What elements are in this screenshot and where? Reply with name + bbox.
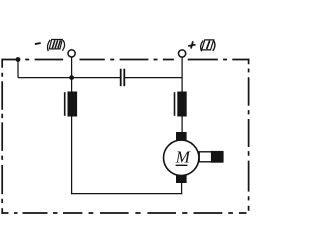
wire: capacitor right plate to right branch	[125, 77, 182, 79]
wire: right terminal down to choke L2	[181, 57, 183, 92]
motor M1 shaft outline	[199, 152, 223, 162]
motor M1 shaft black end	[211, 151, 223, 163]
housing boundary right dash-dot line	[248, 59, 250, 211]
choke L1 core line	[64, 92, 66, 116]
capacitor C1 right plate	[123, 69, 125, 87]
wire: choke L2 down to motor top brush	[181, 116, 183, 133]
svg-text:M: M	[175, 147, 191, 166]
terminal minus	[68, 50, 75, 57]
motor M1 underline of M	[176, 164, 188, 166]
wire: ground to capacitor left plate	[18, 77, 120, 79]
label left parenthesis (	[47, 40, 50, 51]
housing boundary top dash-dot line	[2, 59, 250, 61]
housing boundary left dash-dot line	[1, 59, 3, 214]
label plus sign	[188, 41, 195, 48]
label hatched box III	[49, 40, 62, 49]
capacitor C1 left plate	[120, 69, 122, 87]
motor M1 bottom brush	[176, 175, 187, 183]
choke L1 body	[68, 92, 78, 117]
wire: left terminal down to choke L1	[71, 57, 73, 92]
junction node at left branch	[69, 75, 74, 80]
wire: ground drop from boundary	[17, 60, 19, 78]
label hatched box I	[202, 40, 214, 50]
wire: bottom horizontal run	[71, 193, 182, 195]
choke L2 body	[177, 92, 186, 117]
motor M1 body circle	[164, 140, 199, 175]
wire: up to motor bottom brush	[181, 182, 183, 194]
choke L2 core line	[174, 92, 176, 116]
label right parenthesis )	[213, 40, 215, 51]
motor M1 top brush	[176, 132, 187, 140]
housing boundary bottom dash-dot line	[2, 212, 247, 214]
terminal plus	[179, 50, 186, 57]
wire: choke L1 down to bottom run	[71, 116, 73, 194]
label right parenthesis )	[62, 40, 64, 51]
label minus sign	[35, 43, 41, 44]
junction dot on boundary (ground connection)	[16, 57, 21, 62]
label left parenthesis (	[201, 41, 204, 52]
